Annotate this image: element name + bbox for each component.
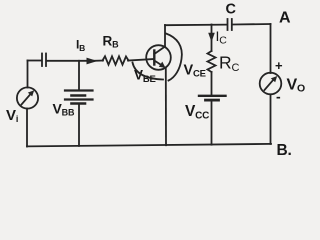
wire: arrow to resistor RB bbox=[94, 60, 103, 62]
battery VCC bbox=[199, 95, 226, 97]
svg-text:VCE: VCE bbox=[184, 63, 206, 80]
wire: top rail left segment (collector corner to capacitor C) bbox=[165, 24, 227, 27]
signal source Vi (circle with arrow) bbox=[17, 87, 38, 108]
svg-text:IC: IC bbox=[216, 28, 228, 47]
svg-text:RC: RC bbox=[219, 53, 239, 75]
wire: resistor RC to battery VCC bbox=[211, 72, 213, 96]
resistor RC (vertical zigzag) bbox=[208, 51, 216, 72]
svg-text:Vi: Vi bbox=[6, 107, 18, 124]
svg-text:RB: RB bbox=[103, 34, 120, 50]
meter VO (circle with arrow) bbox=[260, 73, 282, 95]
wire: top rail right segment (capacitor C to node A corner) bbox=[233, 23, 271, 26]
capacitor (input coupling, right plate) bbox=[45, 54, 47, 67]
svg-text:B.: B. bbox=[277, 142, 292, 158]
wire: battery VBB to bottom rail bbox=[78, 104, 80, 146]
wire: left rail vertical (Vi top up to input corner) bbox=[27, 61, 29, 88]
current arrow IB bbox=[87, 58, 98, 65]
wire: collector up to top rail bbox=[164, 25, 166, 47]
transistor Q1 (NPN, circle) bbox=[146, 45, 171, 70]
wire: input top horizontal (corner to input capacitor) bbox=[28, 60, 42, 62]
transistor Q1 collector lead bbox=[154, 47, 165, 55]
capacitor (input coupling, left plate) bbox=[41, 54, 43, 67]
wire: RC branch from top rail with IC arrow bbox=[211, 25, 213, 52]
wire: left rail vertical (Vi bottom to bottom rail) bbox=[26, 109, 28, 147]
capacitor C (output coupling, left plate) bbox=[227, 19, 229, 30]
svg-text:+: + bbox=[275, 58, 283, 73]
resistor RB (zigzag) bbox=[103, 56, 129, 64]
svg-text:VO: VO bbox=[287, 77, 305, 95]
arc VCE (curved marker collector-emitter) bbox=[166, 34, 182, 81]
svg-text:VCC: VCC bbox=[185, 103, 209, 122]
arc VBE (curved marker base-emitter) bbox=[133, 63, 164, 80]
svg-text:-: - bbox=[276, 89, 281, 105]
wire: bottom rail bbox=[27, 144, 271, 147]
wire: junction down to battery VBB bbox=[78, 61, 80, 91]
svg-text:C: C bbox=[226, 2, 237, 18]
wire: right rail upper (node A to meter VO) bbox=[270, 24, 272, 73]
wire: battery VCC to bottom rail bbox=[211, 100, 213, 145]
transistor Q1 base bar bbox=[153, 51, 155, 65]
wire: resistor RB to transistor base bbox=[128, 59, 154, 61]
wire: capacitor to base node bbox=[47, 60, 87, 62]
current arrow IC bbox=[208, 33, 215, 42]
wire: right rail lower (meter VO to node B corner) bbox=[270, 95, 272, 144]
wire: emitter down to bottom rail bbox=[165, 68, 167, 145]
svg-text:A: A bbox=[279, 10, 291, 27]
battery VBB bbox=[65, 91, 93, 104]
transistor Q1 emitter lead with arrow bbox=[154, 61, 162, 66]
svg-text:IB: IB bbox=[76, 38, 85, 54]
capacitor C (output coupling, right plate) bbox=[231, 19, 233, 30]
